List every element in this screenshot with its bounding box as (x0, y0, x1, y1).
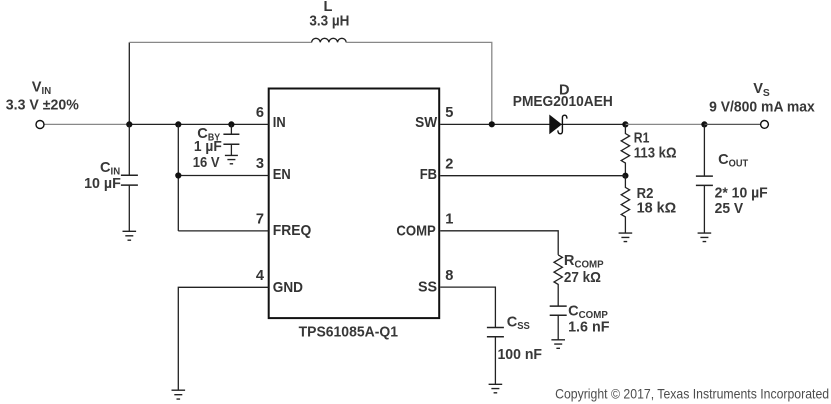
svg-text:FB: FB (420, 167, 437, 183)
node junction EN branch (175, 121, 181, 127)
capacitor CBY (193, 124, 240, 170)
svg-text:10 µF: 10 µF (84, 176, 121, 192)
svg-text:1: 1 (445, 211, 453, 227)
ground COUT (698, 233, 712, 242)
node junction CBY branch (228, 121, 234, 127)
svg-text:GND: GND (273, 280, 303, 296)
node VS terminal (761, 121, 769, 129)
svg-text:TPS61085A-Q1: TPS61085A-Q1 (299, 324, 398, 340)
svg-text:1.6 nF: 1.6 nF (568, 320, 609, 336)
node junction SW/top rail (489, 121, 495, 127)
capacitor CIN (84, 124, 138, 231)
node junction VIN rail / riser (126, 121, 132, 127)
capacitor CCOMP (550, 304, 610, 340)
node VIN terminal (36, 121, 44, 129)
svg-text:18 kΩ: 18 kΩ (637, 201, 677, 217)
resistor R2 (621, 176, 676, 233)
ground CIN (123, 231, 137, 240)
svg-text:6: 6 (256, 105, 264, 121)
svg-text:5: 5 (445, 105, 453, 121)
wire SW to diode to R1 node (440, 123, 625, 125)
wire main input rail (129, 123, 268, 125)
svg-text:1 µF: 1 µF (194, 139, 222, 155)
wire COUT node to VS terminal (704, 123, 760, 125)
ground CCOMP (551, 340, 565, 349)
svg-text:8: 8 (445, 268, 453, 284)
svg-text:3.3 V ±20%: 3.3 V ±20% (6, 98, 79, 114)
node junction R1 top (622, 121, 628, 127)
svg-text:16 V: 16 V (193, 155, 220, 171)
svg-text:FREQ: FREQ (273, 223, 312, 239)
ground GND pin (172, 390, 186, 399)
wire riser to top rail (128, 42, 130, 124)
wire VIN terminal to junction (gray) (44, 123, 129, 125)
svg-text:PMEG2010AEH: PMEG2010AEH (513, 94, 613, 110)
wire top rail right of L down to SW (gray) (346, 42, 492, 124)
diode D PMEG2010AEH (513, 83, 613, 135)
wire FREQ pin (178, 230, 268, 232)
wire top rail left of L (gray) (129, 41, 311, 43)
svg-text:7: 7 (256, 212, 264, 228)
wire GND pin to ground (178, 287, 268, 390)
ground CBY (225, 155, 238, 163)
svg-text:2: 2 (445, 156, 453, 172)
node junction EN (175, 172, 181, 178)
op-amp U1 IC body TPS61085A-Q1 (269, 89, 440, 341)
svg-text:Copyright © 2017, Texas Instru: Copyright © 2017, Texas Instruments Inco… (555, 387, 829, 402)
svg-text:113 kΩ: 113 kΩ (634, 145, 677, 161)
svg-text:100 nF: 100 nF (498, 347, 543, 363)
resistor R1 (621, 124, 677, 175)
svg-text:2* 10 µF: 2* 10 µF (715, 186, 768, 202)
svg-text:SS: SS (418, 279, 437, 295)
wire COMP pin to RCOMP (440, 231, 558, 255)
svg-text:27 kΩ: 27 kΩ (564, 270, 601, 286)
svg-text:COMP: COMP (396, 224, 436, 240)
node junction FB (622, 173, 628, 179)
svg-text:SW: SW (415, 115, 437, 131)
wire EN pin (178, 175, 268, 177)
svg-text:3: 3 (256, 156, 264, 172)
svg-text:3.3 µH: 3.3 µH (309, 14, 349, 30)
capacitor CSS (487, 315, 542, 385)
ground CSS (489, 384, 503, 393)
svg-text:25 V: 25 V (715, 201, 744, 217)
wire FB pin (440, 175, 625, 177)
wire SS pin to CSS (440, 287, 495, 327)
svg-text:R2: R2 (637, 186, 654, 202)
svg-text:R1: R1 (634, 131, 650, 147)
svg-text:4: 4 (256, 268, 265, 284)
resistor RCOMP (554, 253, 604, 306)
ground R2 (619, 233, 633, 242)
capacitor COUT (696, 124, 768, 233)
svg-text:EN: EN (273, 167, 291, 183)
inductor L (309, 0, 349, 42)
wire R1 node to COUT node (gray) (625, 123, 704, 125)
wire EN branch vertical (177, 124, 179, 230)
node junction COUT (701, 121, 707, 127)
svg-text:IN: IN (273, 115, 286, 131)
svg-text:9 V/800 mA max: 9 V/800 mA max (709, 99, 816, 115)
